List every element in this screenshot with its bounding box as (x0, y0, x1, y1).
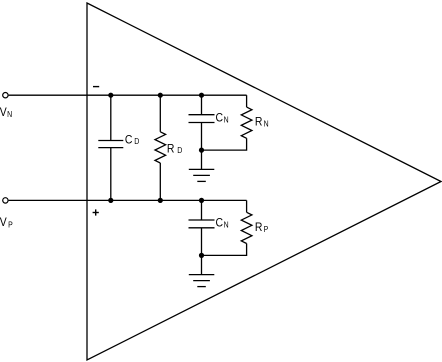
wire CN2 top lead (201, 200, 203, 220)
junction node VN-CN1 (199, 93, 204, 98)
label RN (255, 116, 269, 129)
wire node to ground (upper) (201, 150, 203, 169)
svg-text:P: P (264, 224, 269, 234)
wire VN rail (9, 94, 247, 96)
svg-text:C: C (216, 112, 224, 125)
resistor RD (155, 132, 166, 163)
label VN (0, 106, 12, 119)
capacitor CN (lower) (189, 220, 215, 228)
wire CN1 top lead (201, 95, 203, 115)
non-inverting input marker (plus) (93, 209, 99, 215)
junction node VN-RD (158, 93, 163, 98)
junction node CN1-RN-ground (199, 148, 204, 153)
resistor RN (241, 107, 252, 138)
junction node VN-CD (108, 93, 113, 98)
op-amp U1 triangle body (87, 3, 441, 360)
ground (lower) (189, 275, 215, 287)
label RD (167, 143, 183, 156)
svg-text:R: R (255, 116, 263, 129)
svg-text:N: N (264, 119, 269, 129)
wire RP top lead (246, 200, 248, 212)
capacitor CD (98, 141, 123, 148)
wire CD bottom lead (110, 148, 112, 201)
label CN (upper) (216, 112, 229, 125)
svg-text:P: P (8, 220, 13, 230)
svg-text:R: R (167, 143, 175, 156)
wire CD top lead (110, 95, 112, 140)
junction node VP-CN2 (199, 198, 204, 203)
capacitor CN (upper) (189, 115, 215, 123)
svg-text:D: D (177, 146, 183, 156)
svg-text:D: D (134, 137, 140, 147)
svg-text:V: V (0, 106, 7, 119)
wire RD bottom lead (159, 163, 161, 200)
wire RN bottom return (202, 138, 247, 150)
junction node CN2-RP-ground (199, 253, 204, 258)
wire RP bottom return (202, 244, 247, 256)
junction node VP-CD (108, 198, 113, 203)
wire CN2 bottom lead to node (201, 228, 203, 256)
label CD (125, 134, 140, 147)
svg-text:R: R (255, 221, 263, 234)
svg-text:C: C (125, 134, 133, 147)
svg-text:V: V (0, 216, 7, 229)
wire RN top lead (246, 95, 248, 107)
svg-text:N: N (224, 220, 229, 230)
label CN (lower) (216, 217, 229, 230)
junction node VP-RD (158, 198, 163, 203)
svg-text:N: N (7, 110, 12, 120)
wire CN1 bottom lead to node (201, 123, 203, 151)
input terminal VP (3, 198, 8, 203)
svg-text:N: N (224, 115, 229, 125)
wire VP rail (9, 199, 247, 201)
label VP (0, 216, 13, 229)
svg-text:C: C (216, 217, 224, 230)
wire node to ground (lower) (201, 255, 203, 274)
label RP (255, 221, 268, 234)
input terminal VN (3, 93, 8, 98)
wire RD top lead (159, 95, 161, 132)
resistor RP (241, 212, 252, 243)
ground (upper) (189, 169, 215, 181)
inverting input marker (minus) (93, 86, 99, 87)
